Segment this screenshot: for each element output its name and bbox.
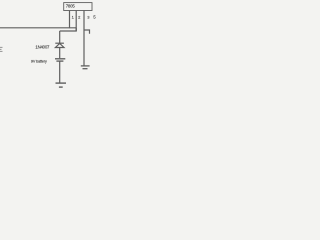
svg-text:5: 5 bbox=[93, 15, 96, 20]
battery plates at left image edge bbox=[0, 47, 3, 51]
svg-text:9V battery: 9V battery bbox=[31, 59, 47, 63]
ground output bbox=[81, 66, 90, 69]
svg-text:1N4007: 1N4007 bbox=[35, 44, 50, 49]
wire jog rail to battery branch bbox=[60, 28, 76, 31]
svg-text:3: 3 bbox=[87, 15, 90, 20]
wire pin3 down to output ground bbox=[83, 30, 85, 66]
diode D1 1N4007 bbox=[55, 43, 64, 58]
ground battery bbox=[56, 83, 67, 87]
svg-text:7805: 7805 bbox=[66, 3, 76, 8]
wire battery to ground bbox=[59, 62, 61, 83]
wire battery branch upper bbox=[59, 31, 61, 43]
pin 3 bbox=[83, 11, 85, 31]
pin 2 bbox=[75, 11, 77, 32]
wire input rail bbox=[0, 27, 76, 29]
op-amp U1 regulator 7805 box bbox=[64, 3, 92, 11]
svg-text:2: 2 bbox=[78, 15, 81, 20]
svg-text:1: 1 bbox=[72, 15, 75, 20]
battery BT1 plates bbox=[55, 59, 65, 61]
wire output jog bbox=[84, 30, 90, 34]
pin 1 bbox=[69, 11, 71, 29]
